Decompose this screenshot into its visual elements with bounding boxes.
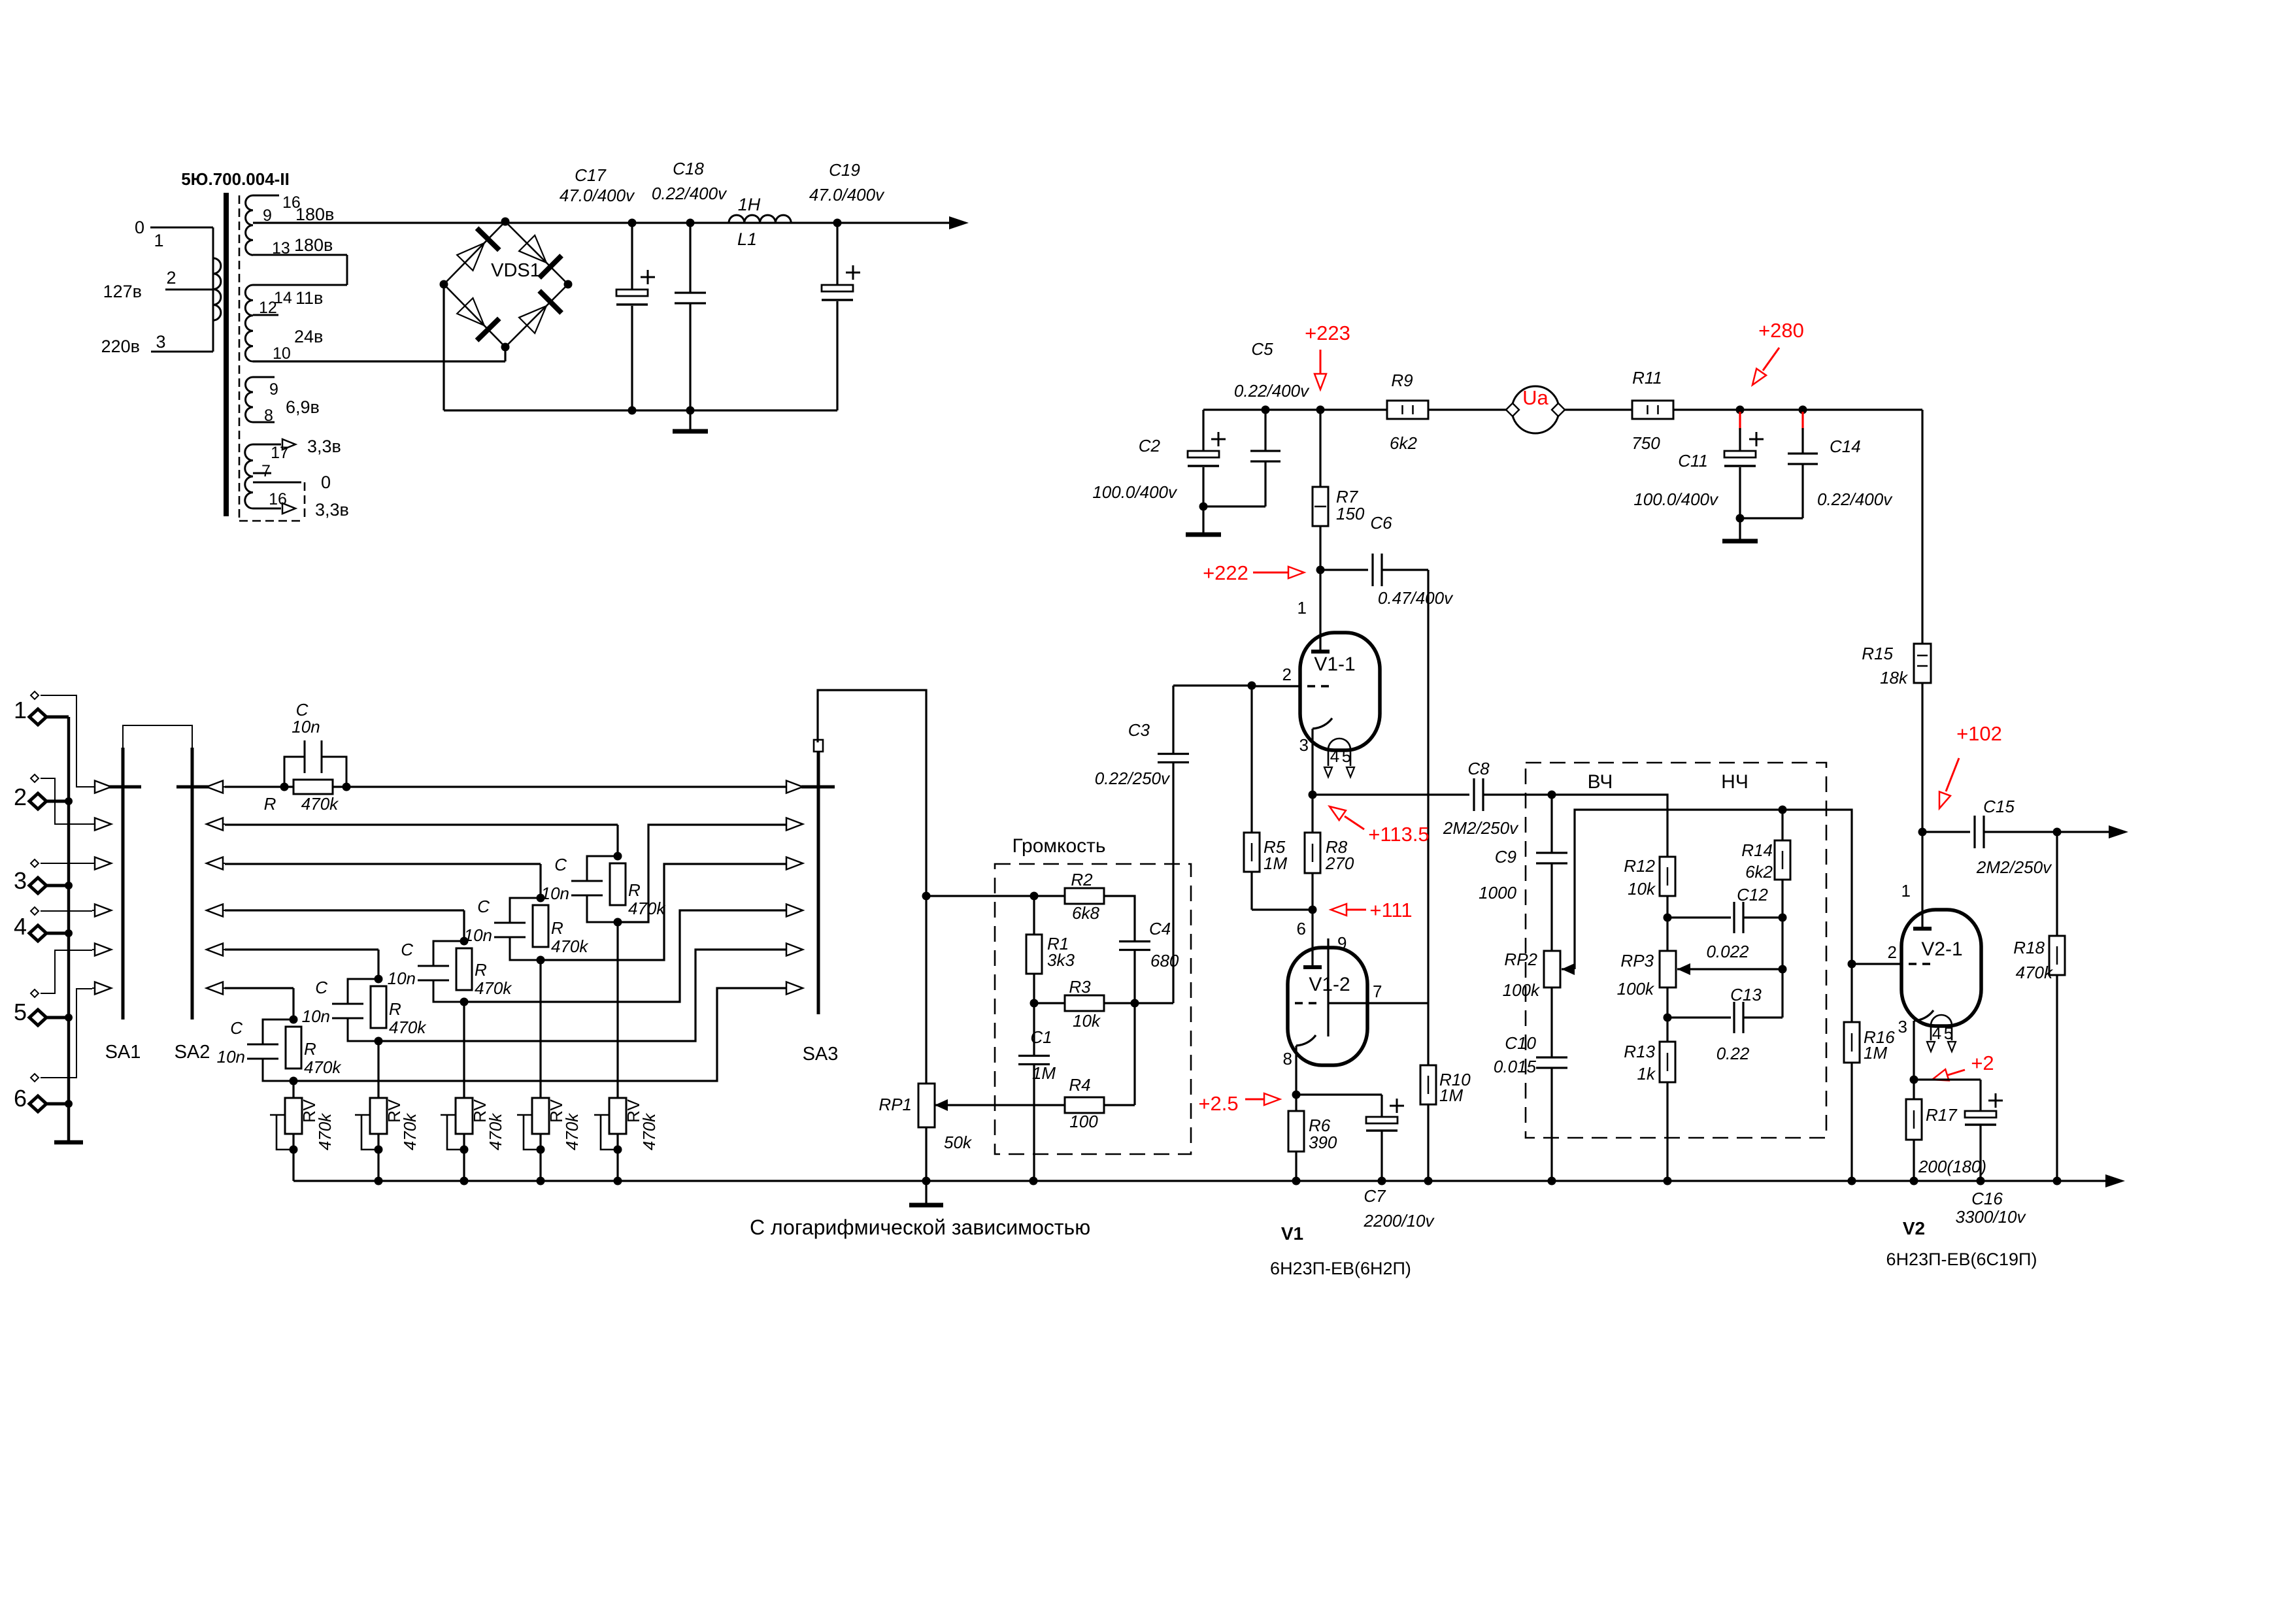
svg-text:SA2: SA2 <box>175 1042 210 1063</box>
svg-text:8: 8 <box>264 406 273 425</box>
svg-text:200(180): 200(180) <box>1918 1157 1986 1176</box>
svg-text:RP3: RP3 <box>1620 951 1654 970</box>
svg-text:2M2/250v: 2M2/250v <box>1443 818 1519 838</box>
svg-text:R14: R14 <box>1741 840 1773 860</box>
svg-text:11в: 11в <box>295 288 323 308</box>
svg-text:6,9в: 6,9в <box>286 397 320 417</box>
svg-text:R: R <box>304 1039 316 1059</box>
svg-text:R18: R18 <box>2013 938 2045 957</box>
svg-text:+222: +222 <box>1203 561 1248 584</box>
svg-text:10n: 10n <box>292 717 320 737</box>
svg-text:C8: C8 <box>1467 759 1490 778</box>
svg-text:V1-1: V1-1 <box>1314 654 1355 675</box>
svg-text:470k: 470k <box>475 978 512 998</box>
svg-text:6: 6 <box>1297 919 1306 938</box>
svg-text:2: 2 <box>1282 665 1292 684</box>
svg-text:0: 0 <box>135 218 144 237</box>
svg-text:12: 12 <box>259 299 277 317</box>
svg-text:C5: C5 <box>1251 339 1273 359</box>
svg-text:+102: +102 <box>1956 722 2002 745</box>
svg-text:10n: 10n <box>541 884 569 903</box>
svg-text:R9: R9 <box>1391 371 1413 390</box>
svg-text:220в: 220в <box>101 337 140 356</box>
svg-text:+113.5: +113.5 <box>1368 823 1429 846</box>
svg-text:R3: R3 <box>1069 977 1091 997</box>
svg-text:1k: 1k <box>1637 1064 1656 1084</box>
svg-text:2: 2 <box>14 784 27 810</box>
svg-text:8: 8 <box>1283 1049 1292 1069</box>
svg-text:VDS1: VDS1 <box>491 260 541 281</box>
svg-text:3300/10v: 3300/10v <box>1956 1207 2027 1227</box>
svg-text:127в: 127в <box>103 282 142 301</box>
svg-text:R: R <box>628 880 641 900</box>
svg-text:6: 6 <box>14 1085 27 1112</box>
svg-text:100k: 100k <box>1503 980 1541 1000</box>
svg-text:10k: 10k <box>1073 1011 1101 1031</box>
svg-text:R12: R12 <box>1624 856 1655 876</box>
svg-text:C11: C11 <box>1678 451 1708 471</box>
svg-text:7: 7 <box>261 462 271 480</box>
svg-text:4: 4 <box>1932 1023 1941 1043</box>
svg-text:0.22: 0.22 <box>1716 1044 1750 1063</box>
svg-text:470k: 470k <box>400 1112 420 1150</box>
svg-text:R17: R17 <box>1926 1105 1958 1125</box>
svg-text:C10: C10 <box>1505 1033 1536 1053</box>
svg-text:C14: C14 <box>1830 437 1861 456</box>
svg-text:0.22/400v: 0.22/400v <box>1234 381 1310 401</box>
svg-text:R: R <box>475 960 487 980</box>
svg-text:470k: 470k <box>389 1018 427 1037</box>
svg-text:V2: V2 <box>1903 1218 1925 1238</box>
svg-text:50k: 50k <box>944 1133 973 1152</box>
svg-text:SA3: SA3 <box>803 1044 839 1065</box>
svg-text:RP1: RP1 <box>879 1095 912 1114</box>
svg-text:100.0/400v: 100.0/400v <box>1092 482 1178 502</box>
svg-text:0: 0 <box>321 472 331 492</box>
svg-text:1M: 1M <box>1264 853 1287 873</box>
svg-text:+280: +280 <box>1758 319 1804 342</box>
svg-text:100: 100 <box>1069 1112 1098 1131</box>
svg-text:6Н23П-ЕВ(6С19П): 6Н23П-ЕВ(6С19П) <box>1886 1250 2037 1269</box>
svg-text:1: 1 <box>154 231 163 250</box>
svg-text:+2: +2 <box>1971 1052 1994 1074</box>
svg-text:3: 3 <box>1898 1017 1907 1036</box>
svg-text:C: C <box>315 978 327 997</box>
svg-text:4: 4 <box>14 913 27 940</box>
svg-text:5Ю.700.004-II: 5Ю.700.004-II <box>181 169 290 189</box>
svg-text:1M: 1M <box>1864 1043 1887 1063</box>
svg-text:390: 390 <box>1309 1133 1337 1152</box>
svg-text:2M2/250v: 2M2/250v <box>1976 857 2052 877</box>
svg-text:5: 5 <box>1342 746 1351 766</box>
svg-text:C17: C17 <box>575 165 607 185</box>
svg-text:C12: C12 <box>1737 885 1768 904</box>
svg-text:R: R <box>389 999 401 1019</box>
svg-text:0.22/400v: 0.22/400v <box>652 184 728 203</box>
svg-text:5: 5 <box>1944 1023 1953 1043</box>
svg-text:C19: C19 <box>829 160 860 180</box>
svg-text:470k: 470k <box>562 1112 582 1150</box>
svg-text:180в: 180в <box>294 235 333 255</box>
svg-text:100.0/400v: 100.0/400v <box>1633 489 1719 509</box>
svg-text:3,3в: 3,3в <box>307 437 341 456</box>
svg-text:470k: 470k <box>628 899 666 918</box>
svg-text:0.22/400v: 0.22/400v <box>1817 489 1893 509</box>
svg-text:0.22/250v: 0.22/250v <box>1095 769 1171 788</box>
svg-text:R2: R2 <box>1071 870 1093 889</box>
svg-text:17: 17 <box>271 444 289 462</box>
svg-text:C9: C9 <box>1495 847 1516 867</box>
svg-text:2200/10v: 2200/10v <box>1364 1211 1435 1231</box>
svg-text:0.015: 0.015 <box>1494 1057 1537 1076</box>
svg-text:9: 9 <box>263 207 272 225</box>
svg-text:10n: 10n <box>217 1047 245 1067</box>
svg-text:47.0/400v: 47.0/400v <box>809 185 885 205</box>
svg-text:150: 150 <box>1336 504 1365 523</box>
svg-text:C16: C16 <box>1971 1189 2003 1208</box>
svg-text:2: 2 <box>1888 942 1897 962</box>
svg-text:RP2: RP2 <box>1504 950 1537 969</box>
svg-text:3,3в: 3,3в <box>315 500 349 520</box>
svg-text:24в: 24в <box>294 327 323 346</box>
svg-text:C6: C6 <box>1370 513 1392 533</box>
svg-text:3: 3 <box>156 332 165 352</box>
svg-text:SA1: SA1 <box>105 1042 141 1063</box>
svg-text:6k2: 6k2 <box>1390 433 1417 453</box>
svg-text:Ua: Ua <box>1522 386 1548 409</box>
svg-text:Громкость: Громкость <box>1012 835 1105 857</box>
svg-text:C4: C4 <box>1149 919 1171 938</box>
svg-text:R4: R4 <box>1069 1075 1090 1095</box>
svg-text:C: C <box>477 897 490 916</box>
svg-text:10n: 10n <box>302 1006 330 1026</box>
svg-text:9: 9 <box>269 380 278 399</box>
svg-text:9: 9 <box>1337 933 1347 953</box>
svg-text:0.47/400v: 0.47/400v <box>1378 588 1454 608</box>
svg-text:470k: 470k <box>2016 963 2054 982</box>
svg-text:16: 16 <box>269 490 287 508</box>
svg-text:ВЧ: ВЧ <box>1588 771 1613 793</box>
svg-text:680: 680 <box>1150 951 1179 970</box>
svg-text:13: 13 <box>272 239 290 257</box>
svg-text:1H: 1H <box>738 195 761 214</box>
svg-text:R11: R11 <box>1632 368 1662 388</box>
svg-text:470k: 470k <box>551 936 589 956</box>
svg-text:1000: 1000 <box>1479 883 1516 903</box>
svg-text:C15: C15 <box>1983 797 2015 816</box>
svg-text:R13: R13 <box>1624 1042 1655 1061</box>
svg-text:470k: 470k <box>301 794 339 814</box>
svg-text:100k: 100k <box>1617 979 1655 999</box>
svg-text:3: 3 <box>14 867 27 894</box>
svg-text:+223: +223 <box>1305 322 1350 344</box>
svg-text:6Н23П-ЕВ(6Н2П): 6Н23П-ЕВ(6Н2П) <box>1270 1259 1411 1278</box>
svg-text:10k: 10k <box>1628 879 1656 899</box>
svg-text:10n: 10n <box>388 969 416 988</box>
svg-text:3k3: 3k3 <box>1047 950 1075 970</box>
svg-text:10: 10 <box>273 344 291 363</box>
svg-text:5: 5 <box>14 999 27 1025</box>
svg-text:6k2: 6k2 <box>1745 862 1773 882</box>
svg-text:470k: 470k <box>639 1112 659 1150</box>
svg-text:750: 750 <box>1632 433 1660 453</box>
svg-text:C: C <box>401 940 413 959</box>
svg-text:1M: 1M <box>1439 1085 1463 1105</box>
svg-text:R15: R15 <box>1862 644 1893 663</box>
svg-text:270: 270 <box>1325 853 1354 873</box>
svg-text:C1: C1 <box>1030 1027 1052 1047</box>
svg-text:R: R <box>551 918 563 938</box>
svg-text:НЧ: НЧ <box>1721 771 1749 793</box>
svg-text:C: C <box>554 855 567 874</box>
svg-text:0.022: 0.022 <box>1706 942 1749 961</box>
svg-text:1: 1 <box>1297 598 1307 618</box>
svg-text:4: 4 <box>1330 746 1339 766</box>
svg-text:1: 1 <box>1901 881 1911 901</box>
svg-text:R: R <box>264 794 276 814</box>
svg-text:C2: C2 <box>1139 436 1161 456</box>
svg-text:C7: C7 <box>1364 1186 1386 1206</box>
svg-text:470k: 470k <box>315 1112 335 1150</box>
svg-text:+111: +111 <box>1369 899 1412 921</box>
svg-text:V2-1: V2-1 <box>1921 938 1962 960</box>
svg-text:V1: V1 <box>1281 1223 1303 1244</box>
svg-text:C18: C18 <box>673 159 704 178</box>
svg-text:V1-2: V1-2 <box>1309 974 1350 995</box>
svg-text:3: 3 <box>1299 735 1309 755</box>
svg-text:1: 1 <box>14 697 27 723</box>
svg-text:470k: 470k <box>304 1057 342 1077</box>
svg-text:1M: 1M <box>1032 1063 1056 1083</box>
svg-text:C13: C13 <box>1730 985 1762 1004</box>
svg-text:C3: C3 <box>1128 720 1150 740</box>
svg-text:2: 2 <box>166 268 176 288</box>
svg-text:L1: L1 <box>737 229 757 249</box>
svg-text:6k8: 6k8 <box>1072 903 1099 923</box>
svg-text:47.0/400v: 47.0/400v <box>560 186 635 205</box>
svg-text:18k: 18k <box>1880 668 1909 688</box>
svg-text:С логарифмической зависимостью: С логарифмической зависимостью <box>750 1216 1090 1239</box>
svg-text:180в: 180в <box>295 205 334 224</box>
svg-text:7: 7 <box>1373 982 1382 1001</box>
svg-text:+2.5: +2.5 <box>1198 1092 1238 1115</box>
svg-text:470k: 470k <box>486 1112 505 1150</box>
svg-text:C: C <box>230 1018 243 1038</box>
